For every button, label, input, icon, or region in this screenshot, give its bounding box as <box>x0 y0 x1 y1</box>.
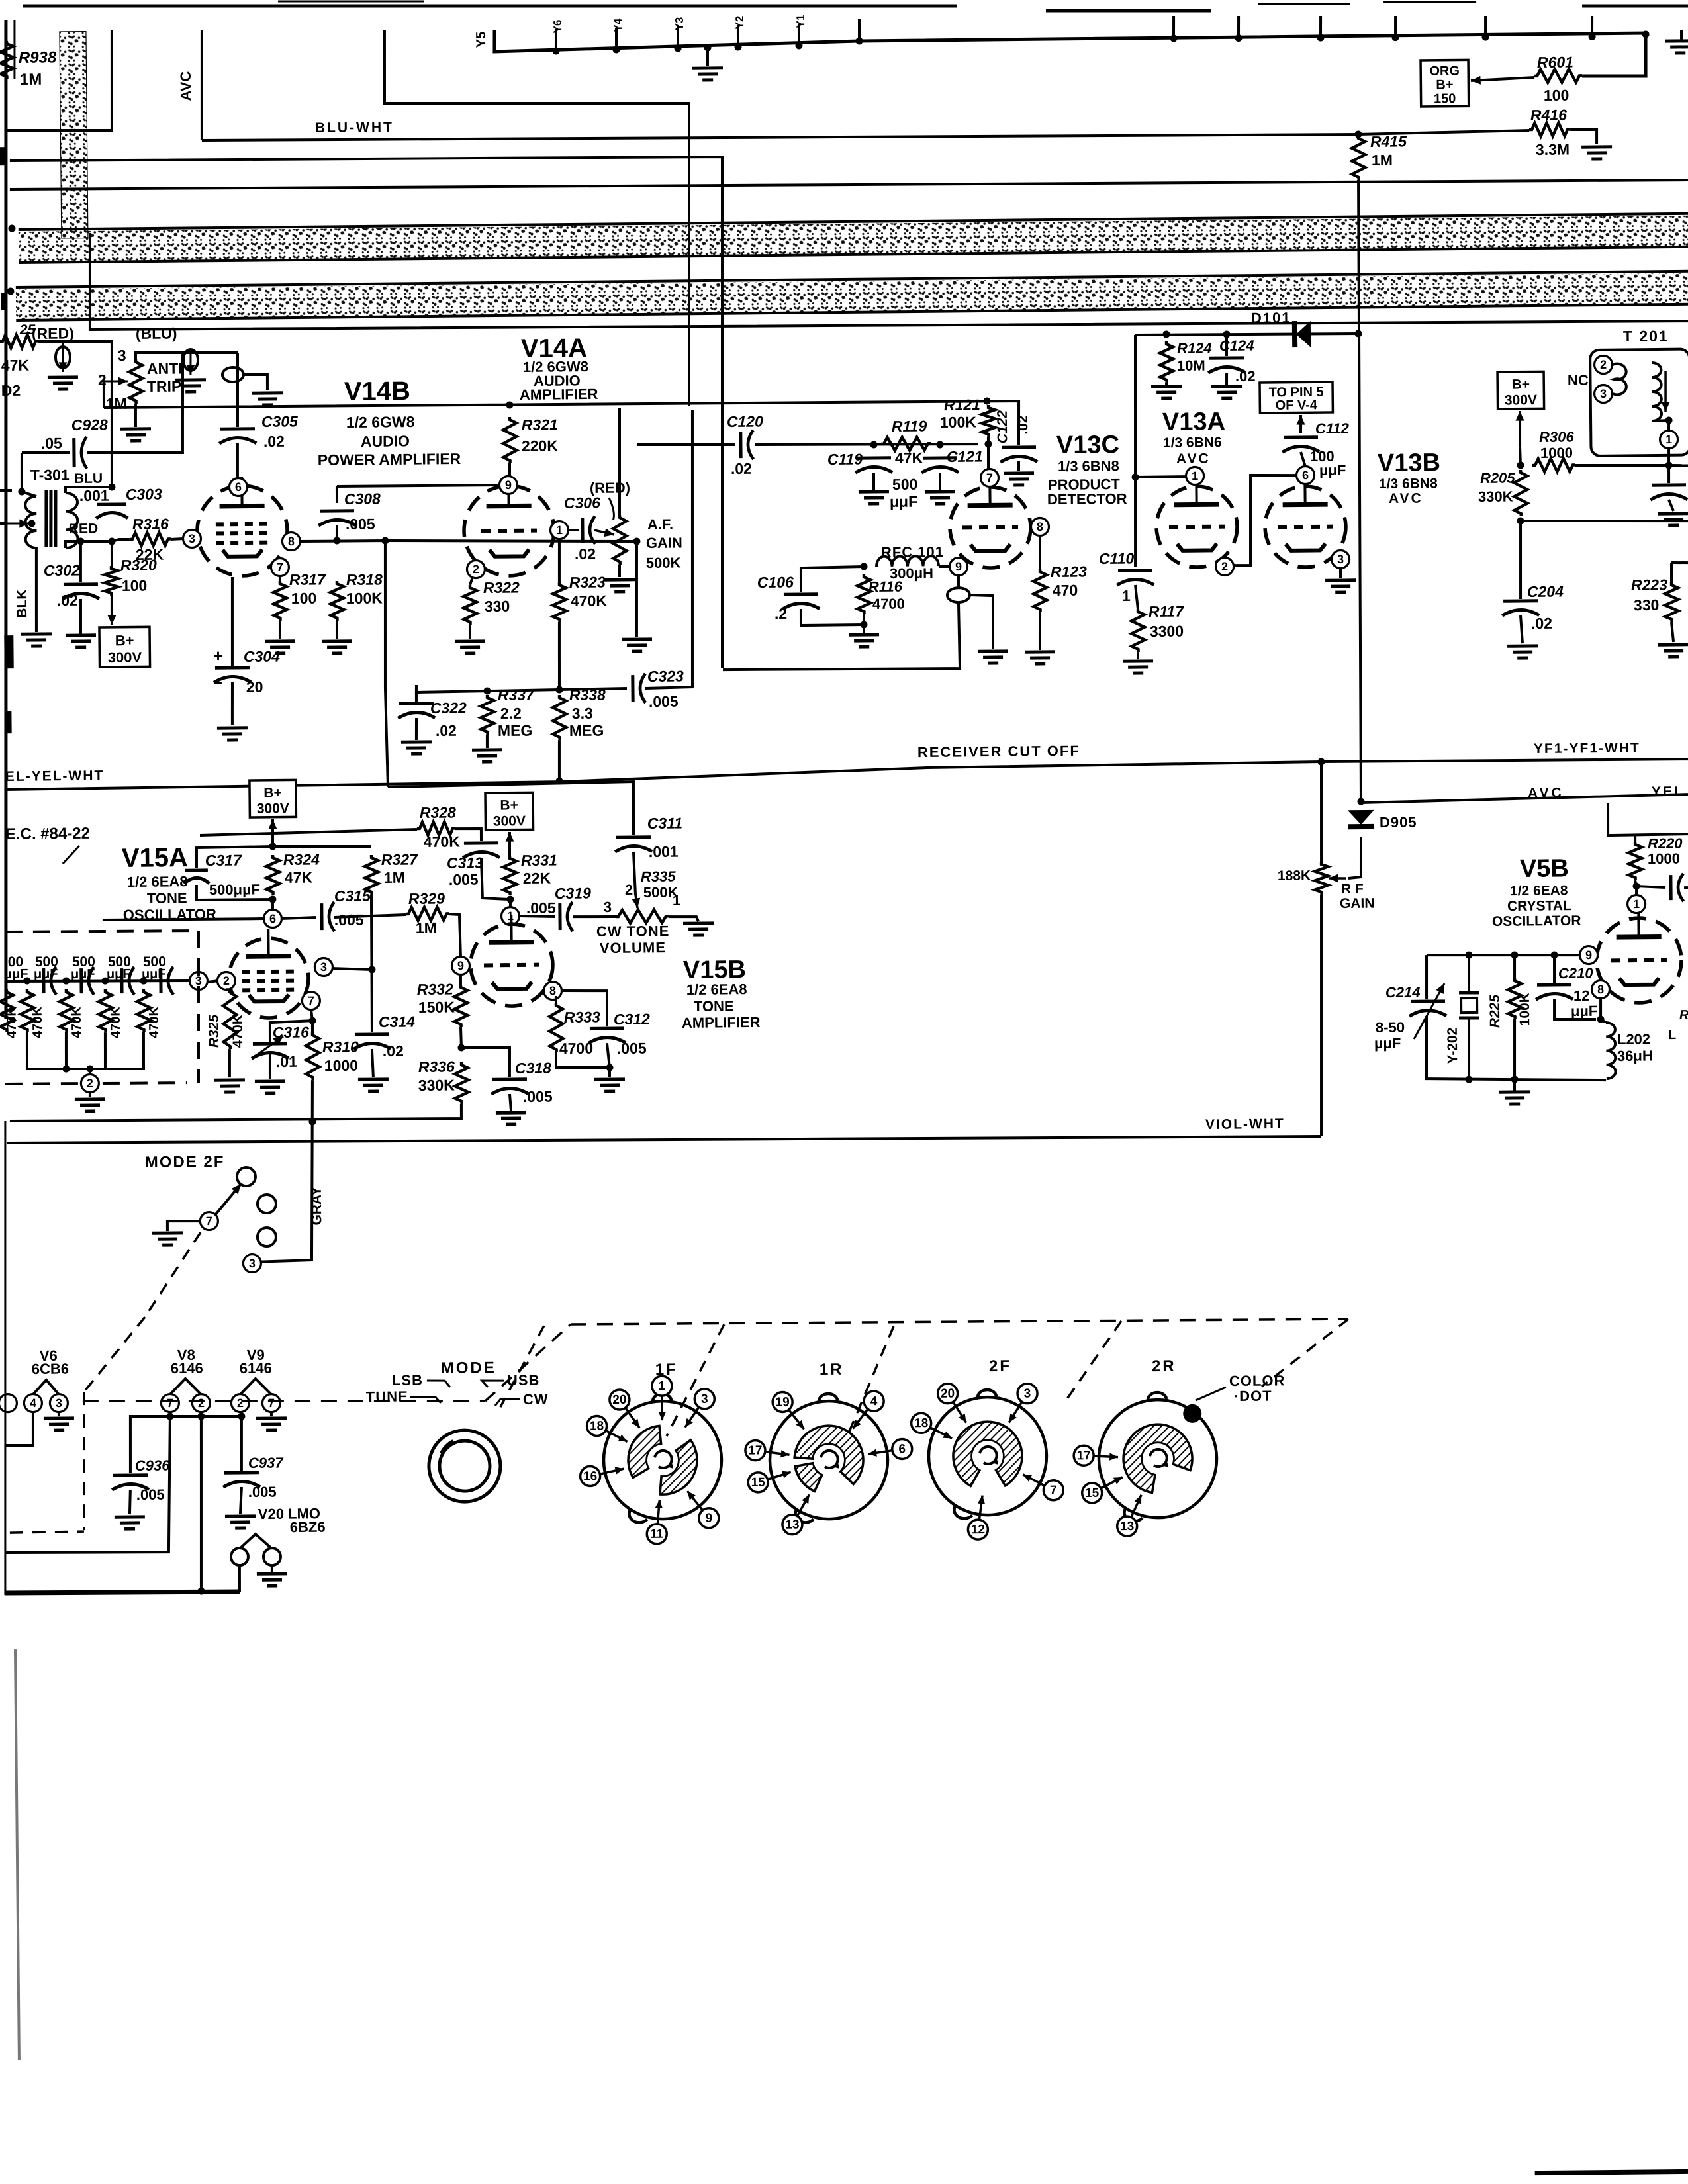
wire C323 to x1046 <box>643 410 695 688</box>
wire c937 stem <box>241 1416 242 1471</box>
wire C124 stem <box>1225 334 1229 356</box>
svg-text:.005: .005 <box>334 911 364 929</box>
svg-text:R317: R317 <box>289 570 326 588</box>
svg-text:C302: C302 <box>44 562 80 580</box>
svg-text:.2: .2 <box>774 605 787 622</box>
pin 6 V14B <box>229 478 247 496</box>
label CW tick <box>495 1399 520 1406</box>
ground C124 <box>1211 385 1242 388</box>
pin 2 V9 <box>231 1394 249 1412</box>
wire gray vertical <box>250 1080 314 1262</box>
wire r329 to pin9 <box>449 914 461 957</box>
wire pin8 ext <box>385 538 637 543</box>
junction R338 yel <box>555 778 563 785</box>
ground R337 <box>472 748 502 751</box>
svg-text:2: 2 <box>237 1396 244 1410</box>
resistor R338 <box>553 695 567 740</box>
capacitor C303 <box>97 502 126 506</box>
pin 8 V13C <box>1031 518 1049 535</box>
svg-text:AUDIO: AUDIO <box>361 432 410 450</box>
capacitor C317 <box>185 868 208 872</box>
switch 2R rotor sector 1 <box>1123 1424 1193 1493</box>
svg-text:100: 100 <box>122 577 148 594</box>
svg-text:R416: R416 <box>1530 107 1567 124</box>
junction x561 <box>368 966 375 973</box>
wire r220 bot <box>1635 880 1636 895</box>
wire R223 top <box>1670 563 1673 582</box>
wire C302 stem <box>80 541 81 582</box>
svg-text:C315: C315 <box>334 887 371 905</box>
capacitor C214 variable <box>1411 999 1445 1003</box>
bus junction x2108 <box>1391 34 1399 41</box>
resistor R336 <box>455 1062 469 1104</box>
capacitor C106 <box>784 592 818 596</box>
wire pin9 left <box>337 485 499 487</box>
ground R416 <box>1581 145 1612 148</box>
stippled band 1 <box>19 214 1688 263</box>
svg-text:CRYSTAL: CRYSTAL <box>1507 898 1571 914</box>
pin 2 EC <box>81 1074 99 1092</box>
junction R116 bottom <box>860 621 867 628</box>
svg-text:R327: R327 <box>381 851 418 869</box>
ground anti pot <box>120 427 151 430</box>
terminal box TO PIN 5 OF V-4 <box>1260 382 1333 413</box>
wire v8 pin2 long down <box>199 1416 203 1591</box>
svg-text:12: 12 <box>1573 987 1590 1004</box>
svg-text:R329: R329 <box>408 890 445 908</box>
capacitor C319 <box>558 903 561 930</box>
resistor R332 <box>454 985 468 1027</box>
capacitor C311 <box>616 835 651 839</box>
wire anti wiper feed <box>103 381 106 408</box>
junction C121 <box>936 441 943 448</box>
wire R223 corner <box>1671 561 1688 565</box>
switch 1R pin 19 <box>789 1410 804 1429</box>
wire pin2 stem <box>470 577 473 585</box>
svg-text:47K: 47K <box>1 357 30 374</box>
svg-text:2: 2 <box>1600 358 1607 371</box>
svg-text:9: 9 <box>1585 948 1592 962</box>
bus stub x1995 <box>1319 16 1323 38</box>
svg-text:2: 2 <box>87 1077 93 1090</box>
svg-text:C120: C120 <box>727 412 763 430</box>
capacitor C204 <box>1503 599 1538 602</box>
svg-text:6: 6 <box>1302 469 1309 482</box>
junction V8 pin7 <box>166 1413 173 1420</box>
svg-text:R318: R318 <box>346 571 383 589</box>
svg-text:C210: C210 <box>1558 965 1594 982</box>
wire R25 to lamp node <box>38 341 63 347</box>
dashed box EC bottom2 <box>103 1083 187 1084</box>
wire c214 left leg <box>1426 955 1427 999</box>
svg-text:C312: C312 <box>614 1011 650 1028</box>
junction R121 bottom <box>984 440 992 447</box>
wire c210 stem <box>1553 955 1556 983</box>
capacitor C110 <box>1118 569 1152 572</box>
ground C936 <box>115 1515 145 1518</box>
wire r220 top <box>1634 835 1636 842</box>
svg-text:B+: B+ <box>500 797 518 813</box>
ground C122 <box>1004 471 1034 475</box>
wire cw pot gnd <box>669 917 698 922</box>
svg-text:MODE 2F: MODE 2F <box>145 1153 225 1171</box>
wire C928 down left <box>21 453 22 492</box>
svg-text:3: 3 <box>1024 1387 1031 1401</box>
switch 1R rotor sector 2 <box>795 1463 823 1491</box>
pin 9 V13C <box>949 557 967 575</box>
svg-text:R116: R116 <box>868 578 903 595</box>
switch blade <box>214 1184 241 1215</box>
svg-text:R322: R322 <box>483 579 520 597</box>
junction R331 bottom <box>506 896 514 903</box>
resistor R220 <box>1628 842 1642 880</box>
resistor R25 (cut) <box>0 334 38 348</box>
svg-text:V14B: V14B <box>344 377 410 406</box>
switch 2F rotor sector 1 <box>953 1422 1022 1486</box>
wire r336 bottom corner <box>10 1104 461 1123</box>
wire c312 bot <box>607 1043 610 1068</box>
svg-text:V13B: V13B <box>1378 449 1440 477</box>
arrow R320 to B+ <box>111 596 114 625</box>
ground R223 <box>1658 643 1688 646</box>
jack symbol <box>222 367 244 382</box>
svg-text:1M: 1M <box>384 869 405 886</box>
svg-text:C119: C119 <box>827 451 863 469</box>
ground top right partial <box>1665 39 1688 42</box>
svg-text:36μH: 36μH <box>1617 1048 1653 1065</box>
dashed linkage dropD <box>1066 1321 1122 1400</box>
switch 2R pin 15 <box>1101 1477 1123 1488</box>
svg-text:C937: C937 <box>248 1455 285 1472</box>
wire c314 gnd <box>372 1049 373 1077</box>
wire x962 vertical <box>636 541 638 637</box>
svg-text:330K: 330K <box>418 1077 455 1095</box>
potentiometer CW TONE VOLUME <box>616 909 669 923</box>
wire chain bottom mid2 <box>105 1032 105 1069</box>
svg-text:R335: R335 <box>641 868 677 885</box>
svg-text:1: 1 <box>1192 469 1198 482</box>
lamp blu arrow <box>189 353 192 375</box>
svg-text:12: 12 <box>971 1523 985 1537</box>
svg-text:1/3 6BN6: 1/3 6BN6 <box>1163 435 1222 451</box>
svg-text:150K: 150K <box>418 998 455 1016</box>
svg-text:17: 17 <box>1076 1449 1090 1463</box>
svg-text:R: R <box>1679 1008 1688 1023</box>
terminal box B+ 300V v15b <box>485 792 534 830</box>
svg-text:R601: R601 <box>1537 54 1573 71</box>
svg-text:9: 9 <box>955 560 962 573</box>
Y bus stub 5 <box>798 24 801 46</box>
wire chain bottom rail <box>26 1031 144 1069</box>
svg-text:VOLUME: VOLUME <box>600 939 666 956</box>
wire R416 line <box>1358 130 1529 134</box>
wire left stub y197 <box>6 30 113 132</box>
junction C303 bottom <box>108 537 115 545</box>
wire pin1 to C306 <box>568 529 579 531</box>
svg-text:R117: R117 <box>1149 602 1185 620</box>
svg-text:C214: C214 <box>1385 984 1421 1001</box>
pin 7 V15A <box>302 991 320 1009</box>
wire c313 bottom <box>481 858 510 900</box>
capacitor C322 <box>399 702 434 705</box>
resistor R938 (cut at edge) <box>0 41 14 79</box>
pin 2 T201 <box>1594 355 1612 373</box>
svg-text:3: 3 <box>1600 387 1607 400</box>
svg-text:2: 2 <box>473 563 479 576</box>
dashed box EC bottom <box>5 1083 78 1084</box>
switch 1F center hub <box>647 1445 678 1475</box>
svg-text:3300: 3300 <box>1150 623 1184 640</box>
wire c937 gnd <box>240 1487 242 1514</box>
switch 1R rotor sector 1 <box>794 1426 864 1485</box>
transformer T301 primary <box>25 496 37 548</box>
svg-text:470: 470 <box>1053 582 1078 599</box>
bus stub x1773 <box>1172 16 1176 38</box>
wire v20 right gnd <box>271 1565 273 1572</box>
wire pin9 down <box>459 974 462 985</box>
left edge fragment c <box>0 147 5 165</box>
ground tank <box>1499 1090 1530 1093</box>
resistor R116 <box>857 574 871 614</box>
wire C928 left <box>22 452 70 453</box>
wire c936 gnd <box>130 1490 131 1514</box>
resistor R323 <box>553 582 567 622</box>
wire C106 loop bottom <box>801 608 864 625</box>
svg-text:330: 330 <box>485 598 510 615</box>
potentiometer ANTI TRIP <box>129 359 143 404</box>
tube V15B <box>470 923 553 1006</box>
resistor R225 <box>1508 978 1522 1019</box>
switch 1R center hub <box>814 1445 844 1475</box>
transformer T301 secondary <box>66 493 78 548</box>
arrow T201 core <box>1665 371 1665 412</box>
svg-text:CW TONE: CW TONE <box>596 923 670 940</box>
wire C323 link <box>559 688 627 690</box>
junction pin7 v15a <box>308 1017 316 1024</box>
svg-text:8: 8 <box>549 984 556 997</box>
page bottom edge mark <box>1535 2169 1688 2175</box>
resistor R325 <box>223 989 237 1049</box>
capacitor C122 <box>1002 445 1036 449</box>
wire c312 gnd <box>608 1068 611 1077</box>
svg-text:VIOL-WHT: VIOL-WHT <box>1205 1116 1285 1132</box>
wire BLU-WHT <box>202 129 1358 146</box>
svg-text:R324: R324 <box>283 851 320 869</box>
bus stub x2108 <box>1394 16 1397 38</box>
svg-text:7: 7 <box>1050 1484 1057 1498</box>
svg-text:ORG: ORG <box>1429 64 1460 78</box>
top border dash b <box>1258 3 1350 5</box>
svg-text:.005: .005 <box>526 899 556 917</box>
svg-text:7: 7 <box>277 561 283 574</box>
rotary switch wafer 1R body <box>769 1400 888 1520</box>
dashed linkage sw <box>144 1232 201 1317</box>
svg-text:2: 2 <box>198 1396 205 1410</box>
svg-text:1000: 1000 <box>1648 850 1680 867</box>
wire pin9 down <box>957 576 960 589</box>
wire line B <box>10 154 727 676</box>
svg-text:C110: C110 <box>1099 550 1135 568</box>
wire pin2 gnd <box>89 1092 91 1097</box>
svg-text:R332: R332 <box>417 981 453 999</box>
svg-text:.005: .005 <box>136 1486 165 1503</box>
junction x962 top <box>633 537 640 545</box>
junction r333 c312 <box>606 1064 613 1071</box>
svg-text:7: 7 <box>268 1396 275 1410</box>
svg-text:OSCILLATOR: OSCILLATOR <box>1492 913 1581 929</box>
resistor R320 <box>105 566 118 596</box>
wire r325 gnd <box>228 1049 231 1077</box>
wire r328 to c313 <box>455 829 481 842</box>
svg-text:20: 20 <box>941 1387 955 1401</box>
svg-text:R124: R124 <box>1177 340 1212 357</box>
capacitor C313 <box>464 841 498 844</box>
svg-text:B+: B+ <box>1436 77 1453 92</box>
wire anti pot bottom <box>134 404 138 427</box>
svg-text:Y3: Y3 <box>673 17 686 31</box>
wire line C full width <box>10 173 1688 197</box>
wire v8 pin7 stem <box>169 1412 171 1416</box>
svg-text:1R: 1R <box>820 1361 844 1379</box>
junction rail y202 <box>1465 1076 1472 1083</box>
dashed box V6 right <box>83 1392 85 1530</box>
wire C110 to R117 <box>1135 585 1138 609</box>
pin 3 V13B <box>1331 550 1349 568</box>
capacitor C315 <box>320 903 323 930</box>
svg-text:470K: 470K <box>424 833 461 851</box>
wire r331 to pin1 <box>509 899 512 907</box>
svg-text:−: − <box>213 674 222 692</box>
ground R123 <box>1025 650 1055 653</box>
ground x962 <box>622 637 652 641</box>
junction C303 top <box>108 483 115 490</box>
ground C314 <box>358 1077 389 1081</box>
bus junction x1995 <box>1317 34 1324 42</box>
svg-text:YEL: YEL <box>1652 784 1685 799</box>
svg-text:1000: 1000 <box>1540 445 1573 461</box>
capacitor C936 <box>113 1473 148 1477</box>
svg-text:22K: 22K <box>523 870 551 887</box>
stippled band 2 <box>16 271 1688 320</box>
resistor R123 <box>1033 569 1047 612</box>
wire x1715 to pin1 <box>1135 475 1186 478</box>
wire r220 box <box>1608 802 1688 835</box>
resistor R333 <box>549 1003 563 1052</box>
svg-text:470K: 470K <box>70 1007 84 1039</box>
wire pin7 stem v15a <box>311 1009 312 1021</box>
switch 1R pin 17 <box>765 1451 790 1455</box>
junction R206 right <box>1665 462 1672 469</box>
junction avc d905 <box>1357 797 1364 805</box>
wire pin8 v15b <box>561 990 608 1026</box>
svg-text:BLK: BLK <box>15 589 30 617</box>
switch 2F pin 12 <box>979 1496 982 1520</box>
Y bus junction 6 <box>795 42 802 49</box>
svg-text:7: 7 <box>206 1214 212 1228</box>
svg-text:μμF: μμF <box>1374 1035 1401 1052</box>
capacitor C937 <box>224 1471 259 1474</box>
junction heavy line <box>197 1588 205 1595</box>
capacitor C202 partial <box>1652 483 1686 486</box>
svg-text:100: 100 <box>291 590 317 607</box>
wire R316 to pin3 <box>171 537 183 541</box>
svg-text:3: 3 <box>1337 553 1344 566</box>
wire color dot pointer <box>1196 1387 1226 1400</box>
arrow red curve <box>609 498 614 520</box>
resistor R321 <box>503 417 517 463</box>
svg-text:D2: D2 <box>1 382 21 399</box>
svg-text:500K: 500K <box>646 554 681 571</box>
svg-text:1: 1 <box>1633 897 1640 911</box>
dashed linkage dropE <box>1261 1319 1349 1387</box>
pin 2 V13A <box>1215 557 1233 575</box>
junction rail a <box>62 1065 70 1072</box>
svg-text:8: 8 <box>1037 520 1043 533</box>
wire r325 top <box>226 988 230 991</box>
junction D101 a <box>1162 330 1170 338</box>
pin 9 V5B <box>1579 946 1597 964</box>
svg-text:COLOR: COLOR <box>1229 1372 1286 1389</box>
svg-text:(BLU): (BLU) <box>136 324 177 342</box>
svg-text:R328: R328 <box>420 803 456 821</box>
ground V20 <box>257 1572 287 1575</box>
svg-text:C319: C319 <box>555 885 591 903</box>
wire x1715 vertical <box>1133 335 1138 567</box>
svg-text:3: 3 <box>249 1257 256 1270</box>
dashed linkage dropB <box>665 1324 725 1436</box>
switch terminal mid <box>258 1195 276 1213</box>
Y bus junction 4 <box>704 44 711 51</box>
svg-text:6CB6: 6CB6 <box>32 1361 69 1378</box>
wire receiver cutoff line <box>5 758 1688 790</box>
svg-text:6146: 6146 <box>171 1360 203 1377</box>
vertical stippled bus band <box>60 32 88 238</box>
svg-text:R333: R333 <box>564 1008 600 1026</box>
svg-text:3.3: 3.3 <box>572 705 593 722</box>
wire c936 branch <box>130 1416 171 1473</box>
junction R121 top <box>983 397 990 404</box>
svg-text:μμF: μμF <box>1571 1003 1598 1019</box>
resistor R205 <box>1514 470 1528 516</box>
neon lamp blu <box>183 349 198 371</box>
resistor R324 <box>266 855 280 895</box>
wire v9 pin2 stem <box>240 1412 242 1416</box>
wire C204 gnd <box>1521 615 1523 643</box>
svg-text:C323: C323 <box>647 667 684 685</box>
resistor 470K #4 <box>137 989 151 1032</box>
wiper rf gain <box>1329 877 1346 880</box>
wire R320 top <box>111 541 114 566</box>
wire r333 bot <box>556 1052 610 1068</box>
svg-text:18: 18 <box>914 1416 928 1430</box>
svg-text:47K: 47K <box>895 449 923 467</box>
svg-text:V5B: V5B <box>1520 854 1569 883</box>
svg-text:188K: 188K <box>1278 868 1311 884</box>
MODE knob <box>428 1430 500 1502</box>
svg-text:.02: .02 <box>1015 415 1031 434</box>
svg-text:1000: 1000 <box>324 1057 358 1074</box>
Y bus junction 3 <box>674 44 681 52</box>
svg-text:8: 8 <box>288 535 295 548</box>
dashed linkage dropC <box>847 1326 894 1433</box>
resistor R117 <box>1131 609 1145 652</box>
svg-text:D101: D101 <box>1251 309 1291 326</box>
svg-text:μμF: μμF <box>107 967 131 981</box>
wire R223 gnd <box>1671 622 1673 642</box>
junction pin8 l202 <box>1597 1016 1605 1023</box>
svg-text:Y4: Y4 <box>612 18 624 32</box>
svg-text:RED: RED <box>69 522 99 537</box>
